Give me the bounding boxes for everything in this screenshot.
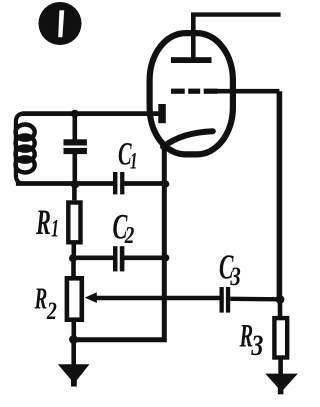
figure number badge 1 xyxy=(39,2,82,45)
label C2 xyxy=(113,207,135,248)
anode lead of tube xyxy=(191,15,196,60)
C2 wire left segment xyxy=(73,255,114,260)
junction node C2 wire to cathode line xyxy=(162,254,169,261)
junction node R1/C2 xyxy=(69,254,77,262)
grid lead (horizontal, exits right) xyxy=(216,89,279,94)
svg-text:1: 1 xyxy=(130,150,137,175)
tank frame left side xyxy=(16,114,24,184)
R2 bottom lead xyxy=(72,320,77,341)
label C1 xyxy=(118,136,137,175)
svg-text:3: 3 xyxy=(251,328,264,361)
junction node grid line / C3 / R3 xyxy=(276,295,285,304)
junction node above R1 xyxy=(71,180,80,189)
grid (dashed electrode) xyxy=(171,89,217,94)
ground symbol right xyxy=(265,374,298,395)
tank top wire into tube xyxy=(22,111,159,116)
coil L1 xyxy=(16,125,35,173)
R1 bottom lead xyxy=(72,245,77,260)
label R3 xyxy=(239,318,264,362)
tank bottom wire / C1 wire left segment xyxy=(16,181,114,186)
anode plate bar xyxy=(171,57,212,63)
cathode bar inside tube xyxy=(158,104,166,123)
C2 wire right segment xyxy=(124,255,166,260)
ground symbol left xyxy=(58,364,90,386)
capacitor C2 plates xyxy=(113,246,124,271)
junction node C1 wire to cathode line xyxy=(162,180,169,187)
wiper arrow of R2 xyxy=(85,292,97,303)
grid lead (vertical, down right side) xyxy=(277,91,283,299)
tank capacitor branch upper lead xyxy=(73,111,78,140)
C2/R2 lead xyxy=(71,258,76,278)
R3 top lead xyxy=(278,300,283,319)
tank capacitor branch lower lead xyxy=(73,153,78,185)
svg-text:R: R xyxy=(35,203,51,243)
svg-text:2: 2 xyxy=(124,222,135,249)
label R1 xyxy=(35,203,59,243)
tank capacitor plates xyxy=(64,139,87,154)
R3 bottom lead xyxy=(278,358,283,377)
svg-text:2: 2 xyxy=(46,297,57,325)
C3 wire right segment xyxy=(230,297,279,302)
potentiometer R2 xyxy=(67,278,82,319)
ground lead left xyxy=(71,340,76,366)
R1 top lead xyxy=(72,184,77,201)
junction node at ground rail xyxy=(69,335,78,344)
wiper wire to C3 xyxy=(96,296,220,300)
svg-text:3: 3 xyxy=(230,263,241,292)
capacitor C3 plates xyxy=(220,287,231,313)
resistor R1 xyxy=(68,203,80,243)
capacitor C1 plates xyxy=(113,172,124,194)
cathode lead down and left to ground rail xyxy=(74,142,165,340)
label C3 xyxy=(219,248,241,291)
B+ supply line (top rail) xyxy=(191,12,281,16)
cathode arc xyxy=(163,131,213,147)
svg-text:R: R xyxy=(34,281,48,316)
svg-text:1: 1 xyxy=(51,214,59,242)
resistor R3 xyxy=(274,318,287,357)
vacuum tube envelope xyxy=(150,33,233,154)
junction node at tank top xyxy=(71,110,79,118)
label R2 xyxy=(34,281,57,325)
C1 wire right segment xyxy=(124,181,166,186)
